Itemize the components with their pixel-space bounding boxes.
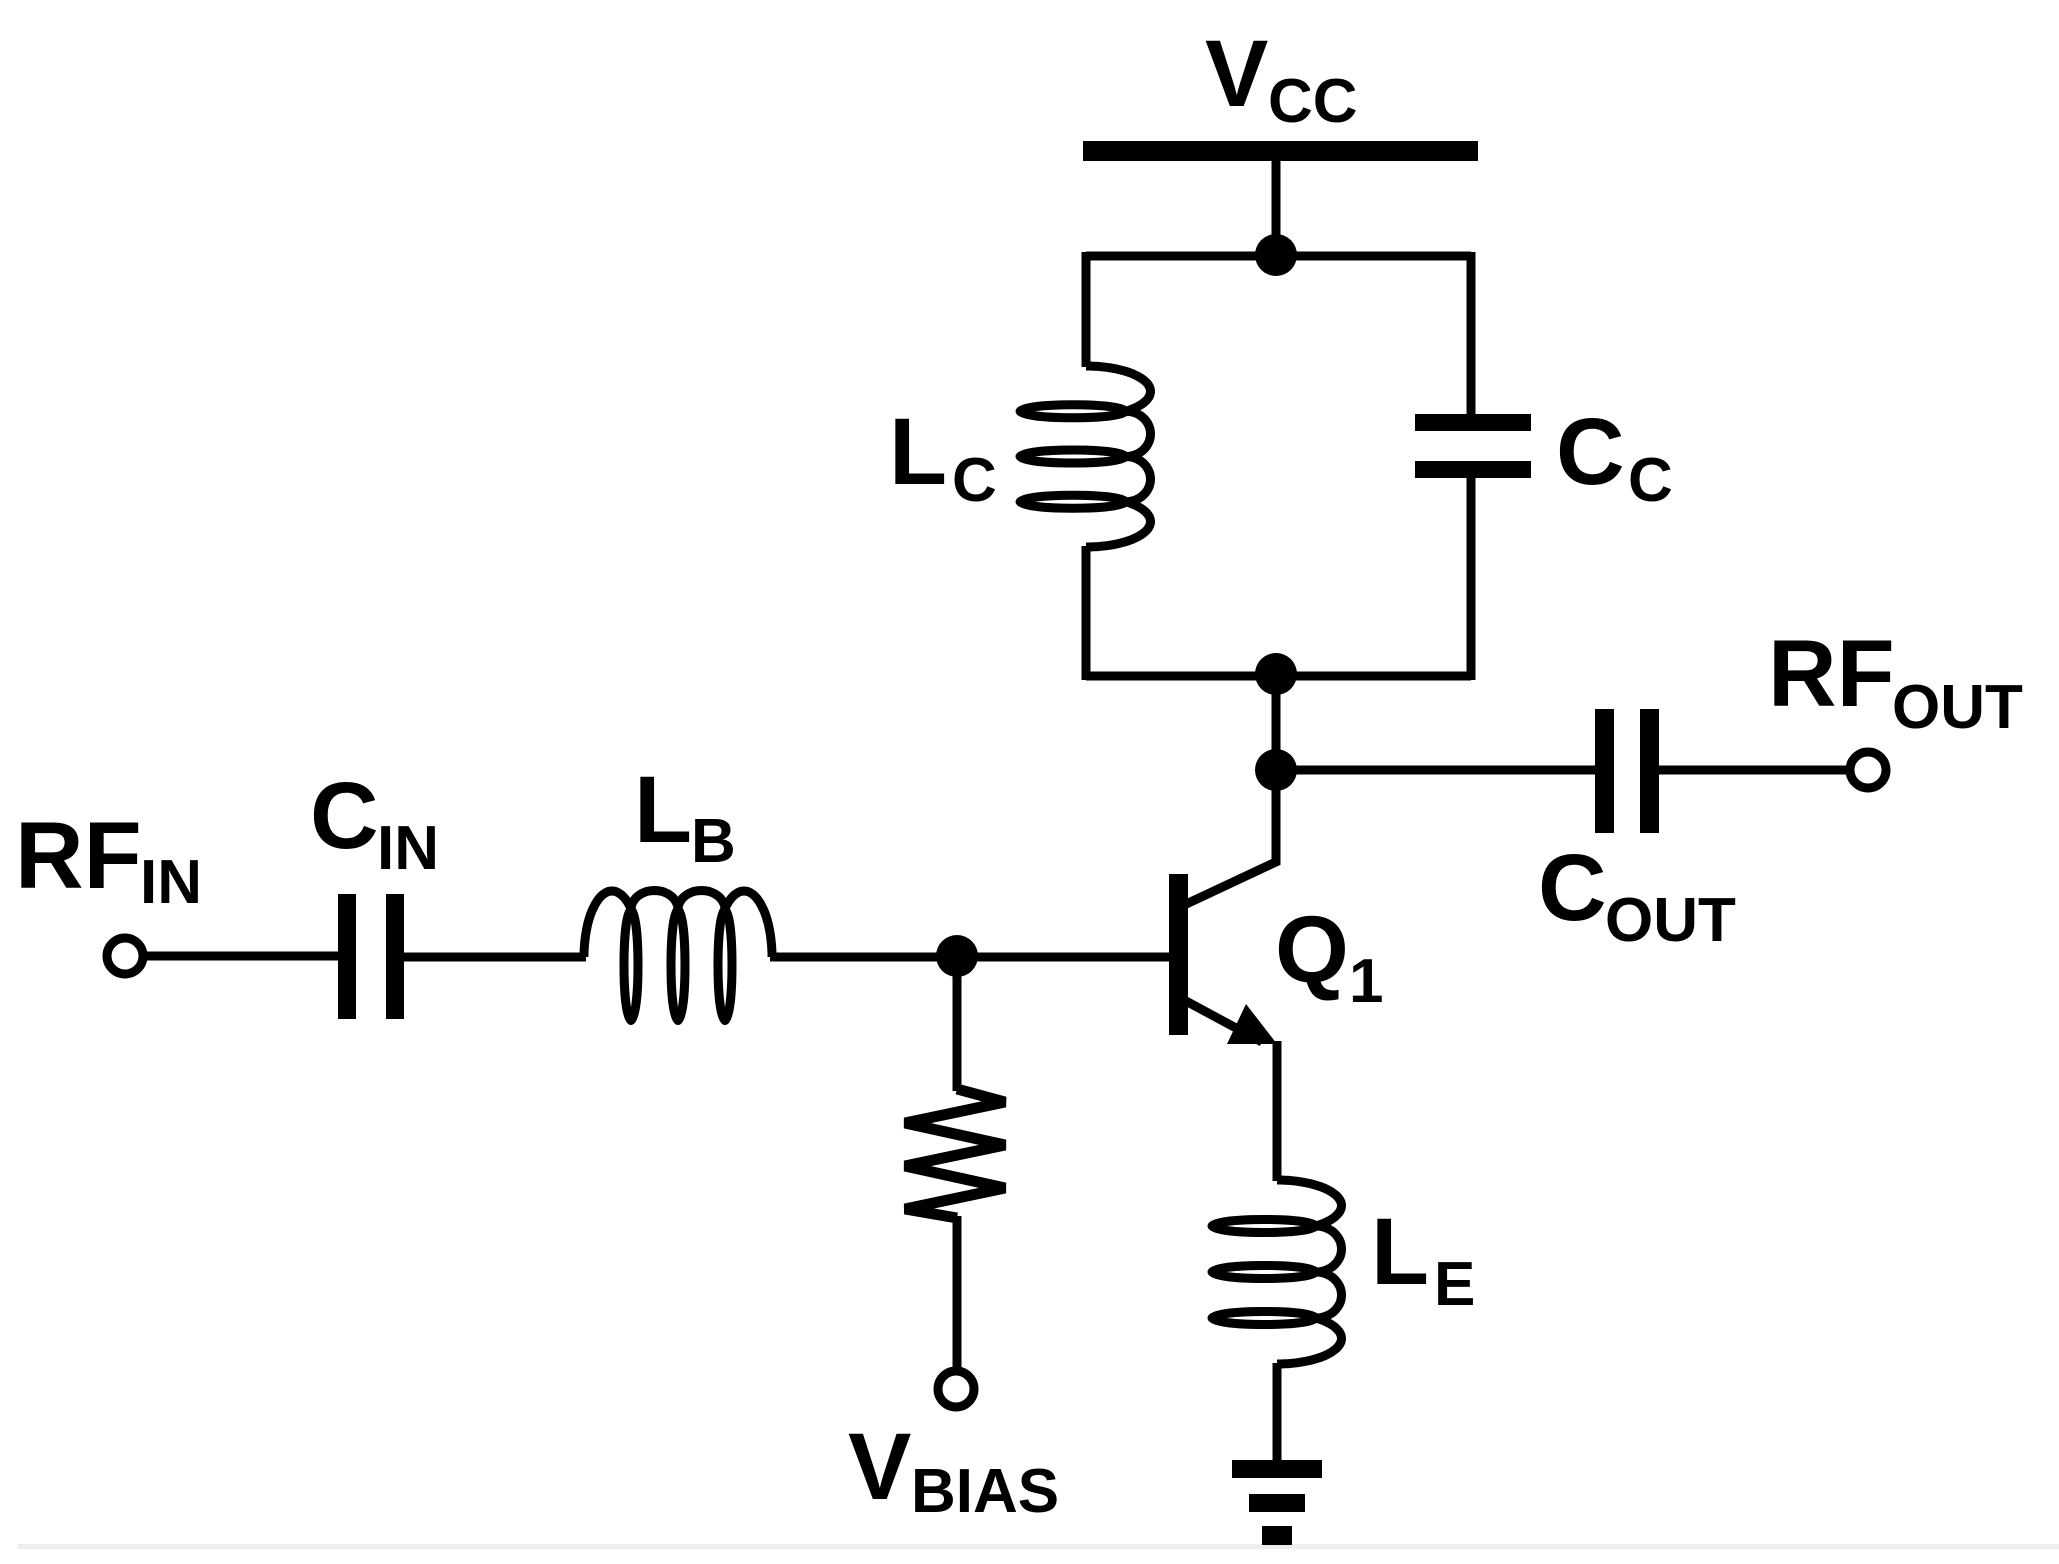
capacitor CC bottom plate (1415, 461, 1531, 478)
svg-text:V: V (848, 1414, 911, 1520)
terminal RFIN (107, 938, 143, 974)
wire node D to resistor (953, 956, 962, 1091)
label LE (1371, 1199, 1475, 1319)
svg-text:L: L (889, 399, 947, 505)
wire tank left upper vertical (1082, 252, 1091, 367)
transistor Q1 base bar (1169, 874, 1188, 1035)
wire emitter vertical (1273, 1041, 1282, 1181)
svg-text:L: L (634, 757, 692, 863)
ground bar 1 (1232, 1460, 1322, 1478)
svg-text:RF: RF (1768, 621, 1895, 727)
capacitor CIN right plate (386, 894, 404, 1019)
wire tank bottom horizontal (1086, 672, 1471, 681)
svg-text:E: E (1434, 1250, 1475, 1319)
inductor LE (1212, 1180, 1342, 1364)
label RFOUT (1768, 621, 2023, 742)
wire COUT to RFOUT terminal (1659, 766, 1846, 775)
svg-text:OUT: OUT (1605, 886, 1736, 955)
svg-text:C: C (1538, 835, 1607, 941)
wire RFIN to CIN (147, 952, 338, 961)
label LC (889, 399, 997, 515)
ground bar 3 (1262, 1526, 1292, 1545)
resistor RBIAS zigzag (905, 1089, 1005, 1218)
inductor LB (584, 891, 772, 1021)
VCC rail bar (1083, 141, 1478, 161)
wire node B to node C (1272, 676, 1281, 770)
wire tank top horizontal (1086, 252, 1471, 261)
capacitor CIN left plate (338, 894, 356, 1019)
wire LB to base (770, 953, 1169, 962)
wire CIN to LB (404, 953, 586, 962)
node C (collector junction) (1255, 749, 1297, 791)
terminal VBIAS (938, 1371, 974, 1407)
svg-text:Q: Q (1275, 897, 1349, 1003)
wire collector to COUT (1276, 766, 1595, 775)
capacitor COUT right plate (1640, 709, 1659, 833)
node D (base junction) (936, 935, 978, 977)
svg-text:V: V (1205, 21, 1268, 127)
capacitor COUT left plate (1595, 709, 1614, 833)
svg-text:C: C (1556, 399, 1625, 505)
label LB (634, 757, 736, 876)
inductor LC (1020, 366, 1151, 547)
label COUT (1538, 835, 1736, 955)
capacitor CC top plate (1415, 414, 1531, 431)
node B (tank bottom junction) (1255, 653, 1297, 695)
svg-text:BIAS: BIAS (911, 1457, 1059, 1526)
label RFIN (15, 803, 202, 917)
svg-text:C: C (310, 763, 379, 869)
wire collector vertical (1272, 770, 1281, 865)
svg-text:1: 1 (1349, 947, 1383, 1016)
transistor Q1 collector lead (1182, 861, 1278, 906)
wire resistor to VBIAS terminal (953, 1216, 962, 1367)
svg-text:RF: RF (15, 803, 142, 909)
label VBIAS (848, 1414, 1059, 1526)
transistor Q1 emitter lead (1184, 1000, 1262, 1042)
label VCC (1205, 21, 1358, 136)
wire tank left lower vertical (1082, 546, 1091, 680)
svg-text:OUT: OUT (1892, 673, 2023, 742)
svg-text:C: C (1628, 446, 1673, 515)
svg-text:CC: CC (1268, 67, 1358, 136)
svg-text:B: B (691, 807, 736, 876)
terminal RFOUT (1850, 752, 1886, 788)
node A (tank top junction) (1255, 234, 1297, 276)
page rule line (18, 1544, 2059, 1549)
label CIN (310, 763, 439, 883)
svg-text:C: C (952, 446, 997, 515)
wire tank right lower vertical (1467, 478, 1476, 680)
transistor Q1 emitter arrow (1227, 1004, 1277, 1044)
svg-text:IN: IN (140, 848, 202, 917)
svg-text:L: L (1371, 1199, 1429, 1305)
ground bar 2 (1249, 1494, 1305, 1512)
wire tank right upper vertical (1467, 252, 1476, 414)
wire VCC bar to node A (1272, 161, 1281, 258)
label CC (1556, 399, 1673, 515)
label Q1 (1275, 897, 1383, 1016)
svg-text:IN: IN (377, 814, 439, 883)
wire LE to ground (1273, 1363, 1282, 1462)
